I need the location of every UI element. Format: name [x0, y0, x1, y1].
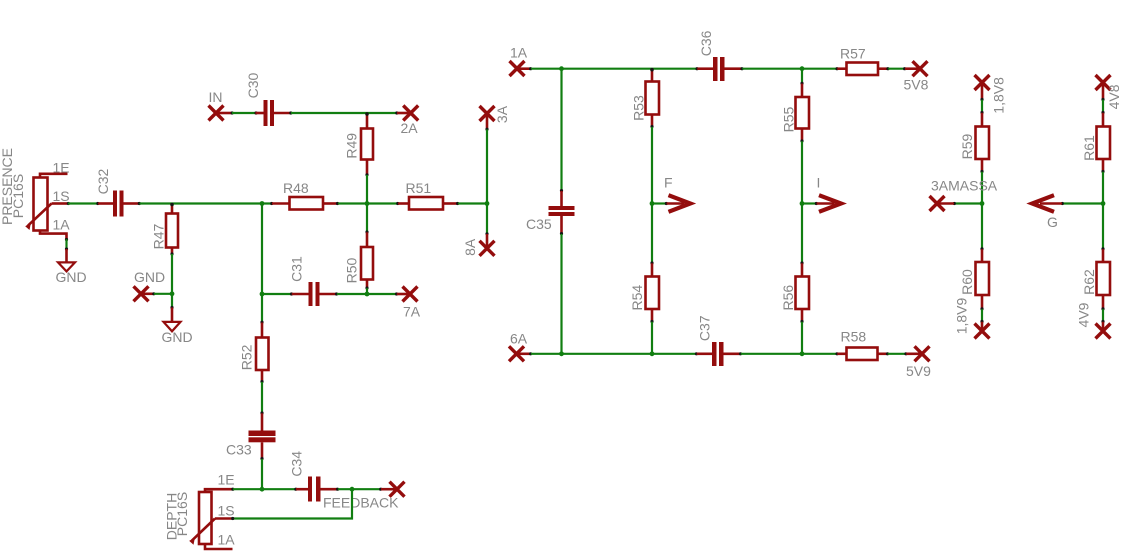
svg-text:GND: GND — [134, 269, 165, 285]
net flag X 6A — [509, 346, 532, 361]
svg-text:C31: C31 — [289, 256, 305, 282]
ground GND 1 — [58, 262, 75, 271]
junction node main branch down — [260, 201, 265, 206]
wire 1E to C34 — [231, 488, 295, 491]
svg-text:1A: 1A — [218, 532, 236, 548]
svg-text:R52: R52 — [239, 344, 255, 370]
capacitor C33 — [249, 411, 276, 460]
svg-text:1S: 1S — [53, 188, 70, 204]
arrow F — [667, 195, 691, 212]
wire I stub — [802, 202, 818, 205]
junction node bottom R54 — [650, 351, 655, 356]
arrow I — [817, 195, 841, 212]
svg-text:F: F — [664, 175, 673, 191]
wire R59 to 3AMASSA node — [981, 172, 983, 204]
wire C33 to 1E row — [261, 459, 263, 489]
net flag X 4V9 — [1096, 322, 1111, 339]
svg-text:1S: 1S — [218, 503, 235, 519]
resistor R48 — [270, 197, 339, 210]
wire R62 to 4V9 — [1101, 309, 1104, 323]
svg-text:R49: R49 — [344, 133, 360, 159]
svg-text:R59: R59 — [959, 133, 975, 159]
wire C35 top — [560, 70, 562, 191]
svg-text:R57: R57 — [840, 46, 866, 62]
resistor R52 — [256, 321, 269, 384]
wire R60 to 1.8V9 — [980, 309, 983, 323]
resistor R57 — [835, 63, 889, 76]
wire C32 to R48 — [140, 202, 273, 204]
wire R48 to R51 — [338, 202, 398, 204]
wire R58 to 5V9 — [888, 353, 906, 355]
resistor R54 — [646, 204, 660, 354]
wire feedback return to 1S — [231, 489, 352, 520]
junction node vertical main — [485, 201, 490, 206]
svg-text:5V9: 5V9 — [906, 363, 931, 379]
net flag X 3A — [480, 106, 495, 131]
wire R61 to G node — [1102, 172, 1104, 204]
net flag X 1A — [510, 61, 533, 76]
svg-text:R61: R61 — [1081, 135, 1097, 161]
net flag X 5V8 — [903, 61, 928, 76]
svg-text:R48: R48 — [283, 180, 309, 196]
svg-text:I: I — [817, 175, 821, 191]
resistor R49 — [361, 112, 373, 176]
svg-text:GND: GND — [162, 329, 193, 345]
net flag X 1.8V9 — [975, 322, 990, 339]
svg-text:R60: R60 — [959, 269, 975, 295]
wire 4V8 to R61 — [1101, 100, 1104, 114]
wire G stub — [1061, 202, 1103, 205]
net flag X 2A — [395, 106, 418, 121]
wire GND stub to node — [154, 293, 172, 295]
resistor R51 — [396, 197, 459, 210]
capacitor C31 — [290, 282, 338, 306]
svg-text:3AMASSA: 3AMASSA — [931, 178, 998, 194]
junction node bottom C35 — [559, 351, 564, 356]
svg-text:2A: 2A — [401, 120, 419, 136]
svg-text:3A: 3A — [494, 105, 510, 123]
junction node I — [800, 201, 805, 206]
wire node to C31 — [262, 293, 291, 295]
capacitor C32 — [96, 191, 141, 217]
svg-text:4V9: 4V9 — [1076, 302, 1092, 327]
wire IN to C30 — [232, 112, 256, 114]
wire R52 to C33 — [261, 382, 263, 413]
junction node main R49 R50 — [365, 201, 370, 206]
capacitor C35 — [549, 189, 575, 235]
resistor R56 — [796, 204, 810, 354]
wire R51 to vertical node — [458, 202, 487, 204]
wire top rail 1A to C36 — [531, 68, 697, 70]
junction node 3AMASSA — [980, 201, 985, 206]
net flag X 7A — [395, 287, 418, 302]
svg-text:C30: C30 — [245, 72, 261, 98]
arrow G — [1032, 195, 1062, 212]
potentiometer DEPTH PC16S — [189, 489, 232, 549]
junction node C31 row — [260, 292, 265, 297]
wire R49 to main node — [366, 175, 368, 204]
svg-text:G: G — [1047, 214, 1058, 230]
junction node R50 bottom — [365, 292, 370, 297]
svg-text:FEEDBACK: FEEDBACK — [323, 495, 399, 511]
wire 3AMASSA stub — [953, 202, 982, 205]
resistor R50 — [361, 204, 373, 294]
wire C35 bottom — [560, 234, 562, 354]
wire 1S to C32 — [67, 202, 98, 205]
svg-text:C33: C33 — [226, 442, 252, 458]
junction node C33 bottom — [260, 487, 265, 492]
wire R47 to GND 2 — [171, 254, 173, 308]
svg-text:C37: C37 — [697, 315, 713, 341]
svg-text:C32: C32 — [95, 168, 111, 194]
junction node top C35 — [559, 66, 564, 71]
net flag X 4V8 — [1096, 75, 1111, 101]
resistor R47 — [166, 203, 178, 256]
wire R53 to F node — [651, 127, 653, 204]
svg-text:R62: R62 — [1081, 269, 1097, 295]
wire C31 to 7A — [337, 293, 396, 295]
wire R55 to I node — [801, 141, 803, 203]
wire R57 to 5V8 — [888, 68, 904, 70]
wire F stub — [652, 202, 668, 205]
svg-text:R56: R56 — [780, 285, 796, 311]
resistor R59 — [976, 113, 990, 173]
svg-text:GND: GND — [56, 269, 87, 285]
svg-text:C35: C35 — [526, 216, 552, 232]
net flag X IN — [209, 106, 234, 121]
net flag X GND stub — [134, 286, 156, 301]
junction node G — [1101, 201, 1106, 206]
svg-text:1,8V8: 1,8V8 — [991, 77, 1007, 114]
svg-text:6A: 6A — [510, 331, 528, 347]
capacitor C37 — [695, 342, 742, 366]
svg-text:PC16S: PC16S — [10, 174, 26, 218]
junction node F — [650, 201, 655, 206]
wire C37 to R58 — [741, 353, 837, 355]
svg-text:R55: R55 — [781, 106, 797, 132]
capacitor C36 — [695, 57, 743, 81]
svg-text:8A: 8A — [462, 238, 478, 256]
svg-text:7A: 7A — [403, 304, 421, 320]
svg-text:R50: R50 — [344, 257, 360, 283]
junction node top R55 — [800, 66, 805, 71]
resistor R62 — [1097, 204, 1111, 311]
svg-text:5V8: 5V8 — [904, 77, 929, 93]
net flag X 3AMASSA — [930, 196, 955, 211]
wire C36 to R57 — [742, 68, 837, 70]
svg-text:C36: C36 — [698, 30, 714, 56]
wire 3A to 8A vertical — [486, 130, 488, 234]
wire C30 to 2A — [291, 112, 397, 114]
resistor R60 — [976, 204, 990, 311]
wire 1.8V8 to R59 — [980, 100, 983, 114]
svg-text:1E: 1E — [218, 472, 235, 488]
junction node feedback return — [350, 487, 355, 492]
junction node GND stub — [170, 291, 175, 296]
wire main node down to C31 row and R52 — [261, 204, 263, 322]
svg-text:C34: C34 — [289, 451, 305, 477]
resistor R61 — [1097, 113, 1111, 173]
svg-text:1A: 1A — [510, 45, 528, 61]
svg-text:R47: R47 — [151, 223, 167, 249]
resistor R53 — [646, 68, 660, 128]
svg-text:1A: 1A — [53, 217, 71, 233]
net flag X 1.8V8 — [975, 75, 990, 101]
svg-text:1,8V9: 1,8V9 — [954, 297, 970, 334]
ground GND 2 — [164, 306, 181, 331]
svg-text:1E: 1E — [53, 160, 70, 176]
net flag X 5V9 — [904, 346, 929, 361]
svg-text:R58: R58 — [841, 329, 867, 345]
wire pot 1A to GND — [65, 238, 68, 262]
resistor R55 — [796, 70, 810, 143]
junction node bottom R56 — [800, 351, 805, 356]
capacitor C30 — [254, 100, 292, 126]
potentiometer PRESENCE PC16S — [25, 174, 67, 239]
capacitor C34 — [294, 477, 339, 502]
net flag X 8A — [480, 232, 495, 256]
wire C34 to FEEDBACK — [338, 488, 380, 490]
resistor R58 — [835, 348, 889, 361]
svg-text:4V8: 4V8 — [1106, 84, 1122, 109]
svg-text:R54: R54 — [629, 285, 645, 311]
svg-text:R53: R53 — [631, 95, 647, 121]
wire bottom rail 6A to C37 — [531, 353, 696, 355]
net flag X FEEDBACK — [379, 482, 404, 497]
svg-text:PC16S: PC16S — [174, 492, 190, 536]
svg-text:IN: IN — [209, 89, 223, 105]
svg-text:R51: R51 — [406, 180, 432, 196]
